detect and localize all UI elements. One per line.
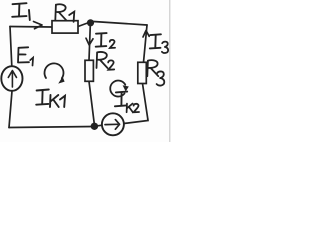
node A junction dot top — [87, 19, 94, 26]
node B junction dot bottom — [91, 123, 98, 130]
wire left branch lower — [9, 91, 12, 128]
label IK2 — [115, 92, 139, 113]
wire right branch upper — [144, 25, 148, 62]
label I1 — [12, 3, 30, 20]
wire middle branch lower — [89, 81, 94, 124]
wire left branch upper — [10, 27, 12, 67]
label IK1 — [36, 90, 65, 108]
wire R1 to node A — [78, 23, 88, 27]
wire node B to bottom-left corner — [9, 127, 94, 128]
label I3 — [150, 34, 168, 53]
label I2 — [96, 33, 115, 48]
voltage source E1 — [1, 66, 22, 91]
wire right branch lower — [143, 84, 148, 120]
wire middle branch upper with I2 arrow shaft — [89, 25, 90, 60]
current arrow I1 — [34, 22, 43, 29]
resistor R3 — [138, 62, 147, 83]
label R2 — [97, 52, 115, 70]
border line right edge — [169, 0, 171, 142]
current arrow I2 — [86, 38, 93, 45]
resistor R1 — [52, 21, 78, 33]
wire current source to node B — [95, 125, 102, 126]
current arrow I3 — [143, 31, 149, 38]
mesh current arrow IK1 — [45, 63, 65, 83]
label E1 — [18, 47, 33, 65]
wire node A to top-right corner — [94, 22, 148, 26]
wire bottom-right corner to current source — [124, 119, 148, 124]
label R1 — [55, 4, 74, 22]
resistor R2 — [85, 60, 93, 81]
mesh current arrow IK2 — [110, 81, 129, 97]
label R3 — [147, 60, 164, 85]
current source J1 — [102, 113, 124, 135]
wire top-left horizontal — [10, 26, 52, 29]
